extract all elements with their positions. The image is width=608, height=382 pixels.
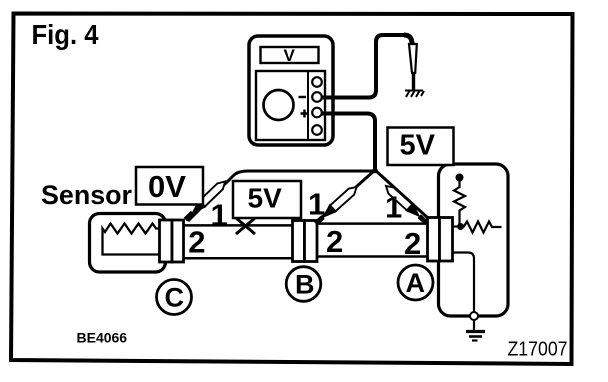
svg-text:A: A — [406, 268, 426, 298]
svg-text:2: 2 — [188, 225, 205, 260]
connector B — [293, 221, 318, 262]
svg-text:BE4066: BE4066 — [77, 330, 128, 346]
ground (body ground hatch) — [405, 90, 424, 97]
svg-text:2: 2 — [404, 226, 421, 261]
node 5V supply dot — [456, 174, 464, 182]
wire (bus pin1 C to B) — [184, 224, 293, 227]
wire — [450, 225, 457, 227]
svg-text:Fig. 4: Fig. 4 — [32, 19, 99, 50]
X break mark — [236, 218, 255, 234]
connector C — [160, 220, 184, 262]
wire (bus pin1 B to A) — [317, 222, 428, 225]
resistor (sensor element) — [103, 224, 164, 255]
label box 5V (middle) — [233, 181, 301, 218]
sensor body — [90, 214, 166, 273]
wire (negative test lead to ground probe) — [322, 35, 404, 98]
svg-text:5V: 5V — [400, 130, 436, 162]
node B — [286, 267, 321, 302]
pin (circle on ECU case) — [470, 312, 478, 320]
label box 0V — [136, 167, 203, 205]
node A — [398, 265, 433, 300]
probe A — [382, 182, 430, 227]
svg-text:0V: 0V — [148, 169, 186, 204]
svg-text:5V: 5V — [248, 183, 283, 214]
wire (bus pin2 C to B) — [184, 257, 293, 260]
ECU box — [439, 164, 509, 316]
wire (ground return inside ECU) — [453, 253, 475, 313]
wire (bus pin2 B to A) — [317, 255, 428, 258]
node fork — [372, 168, 378, 174]
svg-text:2: 2 — [326, 224, 343, 259]
svg-text:1: 1 — [308, 187, 325, 222]
svg-text:B: B — [295, 270, 315, 300]
wire (branch to probe B) — [318, 170, 375, 221]
ground (ECU) — [473, 320, 475, 331]
resistor R2 (horizontal) — [464, 222, 502, 233]
wire — [458, 180, 460, 188]
svg-text:1: 1 — [385, 190, 402, 225]
wire (branch to probe C) — [188, 171, 375, 221]
svg-text:Z17007: Z17007 — [508, 339, 568, 361]
probe B — [312, 183, 360, 228]
wire (branch to probe A) — [375, 170, 428, 218]
wire (positive test lead) — [322, 114, 375, 171]
svg-text:C: C — [165, 283, 185, 313]
node C — [157, 280, 192, 315]
resistor R1 (vertical pull-up) — [454, 187, 465, 226]
probe (ground probe) — [409, 44, 417, 73]
probe C — [182, 177, 229, 223]
svg-text:Sensor: Sensor — [41, 180, 132, 210]
svg-text:V: V — [284, 46, 296, 65]
connector A — [428, 218, 453, 262]
node junction — [457, 223, 464, 230]
voltmeter U1 — [249, 36, 333, 145]
svg-text:1: 1 — [211, 198, 228, 233]
label box 5V (right) — [388, 128, 454, 166]
